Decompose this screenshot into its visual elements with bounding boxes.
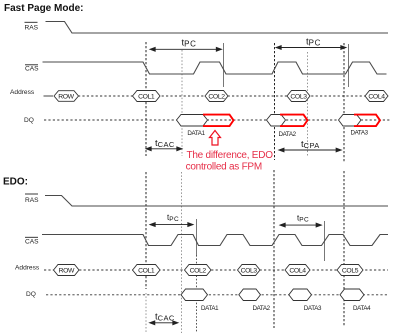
svg-text:DQ: DQ bbox=[24, 117, 34, 124]
svg-text:Address: Address bbox=[15, 265, 40, 272]
svg-text:RAS: RAS bbox=[25, 197, 39, 204]
svg-text:COL5: COL5 bbox=[342, 267, 359, 274]
svg-text:ROW: ROW bbox=[59, 267, 75, 274]
svg-text:DATA1: DATA1 bbox=[201, 305, 219, 312]
svg-text:EDO:: EDO: bbox=[3, 177, 28, 188]
svg-text:DATA2: DATA2 bbox=[253, 305, 271, 312]
svg-text:tPC: tPC bbox=[182, 38, 197, 49]
svg-text:The difference, EDO: The difference, EDO bbox=[187, 150, 274, 161]
svg-text:COL4: COL4 bbox=[289, 267, 306, 274]
svg-text:ROW: ROW bbox=[58, 93, 74, 100]
svg-text:DATA3: DATA3 bbox=[304, 305, 322, 312]
svg-text:tCPA: tCPA bbox=[301, 139, 320, 150]
svg-text:DATA1: DATA1 bbox=[187, 130, 205, 137]
svg-text:COL1: COL1 bbox=[138, 93, 155, 100]
svg-text:Fast Page Mode:: Fast Page Mode: bbox=[4, 3, 83, 14]
svg-text:tCAC: tCAC bbox=[155, 311, 175, 322]
svg-text:COL2: COL2 bbox=[208, 93, 225, 100]
svg-text:CAS: CAS bbox=[25, 239, 39, 246]
svg-text:COL2: COL2 bbox=[190, 267, 207, 274]
svg-text:tCAC: tCAC bbox=[155, 138, 175, 149]
svg-text:tPC: tPC bbox=[306, 37, 321, 48]
svg-text:COL3: COL3 bbox=[290, 93, 307, 100]
svg-text:DQ: DQ bbox=[26, 291, 36, 298]
svg-text:COL1: COL1 bbox=[138, 267, 155, 274]
svg-text:controlled as FPM: controlled as FPM bbox=[186, 162, 262, 173]
svg-text:Address: Address bbox=[10, 89, 35, 96]
svg-text:COL3: COL3 bbox=[241, 267, 258, 274]
svg-text:CAS: CAS bbox=[25, 66, 39, 73]
svg-text:DATA4: DATA4 bbox=[353, 305, 371, 312]
svg-text:RAS: RAS bbox=[25, 25, 39, 32]
svg-text:COL4: COL4 bbox=[368, 93, 385, 100]
svg-text:DATA3: DATA3 bbox=[351, 130, 369, 137]
svg-text:DATA2: DATA2 bbox=[279, 131, 297, 138]
